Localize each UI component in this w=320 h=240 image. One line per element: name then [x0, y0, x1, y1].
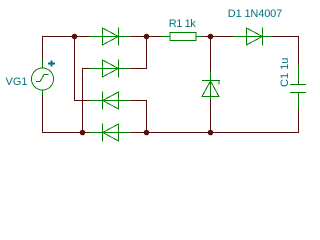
wire D1 to top right corner [272, 36, 299, 65]
zener diode (cathode up) [202, 72, 220, 100]
svg-text:C1 1u: C1 1u [279, 58, 291, 87]
wire zener branch upper [210, 36, 212, 72]
wire VG1 bottom lead to bottom rail [42, 95, 90, 133]
wire zener branch lower [210, 100, 212, 132]
diode D1 1N4007 (pointing right) [234, 28, 272, 46]
voltage source VG1 [32, 60, 54, 95]
junction top at x210 [208, 34, 214, 40]
plus polarity mark of VG1 [48, 61, 55, 67]
wire top rail VG+ to bridge [42, 36, 90, 60]
wire row3 right corner down to bottom rail [130, 100, 147, 132]
junction top at x74 [72, 34, 78, 40]
wire bottom rail right of bridge [130, 132, 299, 134]
svg-text:VG1: VG1 [6, 76, 28, 88]
svg-text:R1 1k: R1 1k [169, 18, 196, 30]
wire R1 to D1 [202, 36, 234, 38]
bridge diode 4 (row 4, pointing left) [90, 124, 130, 142]
wire row2 left corner down to bottom rail [82, 68, 90, 132]
wire top rail bridge output to R1 [130, 36, 162, 38]
bridge diode 3 (row 3, pointing left) [90, 92, 130, 110]
wire row2 right corner up to top junction [130, 36, 147, 69]
svg-text:D1 1N4007: D1 1N4007 [228, 8, 282, 20]
junction bottom at x210 [208, 130, 214, 136]
junction bottom at x146 [144, 130, 150, 136]
junction bottom at x82 [80, 130, 86, 136]
junction top at x146 [144, 34, 150, 40]
wire right side down from capacitor to bottom rail [298, 109, 300, 133]
bridge diode 1 (row 1, pointing right) [90, 28, 130, 46]
wire vertical x74 from top junction to row3 [74, 36, 90, 101]
bridge diode 2 (row 2, pointing right) [90, 60, 130, 78]
capacitor C1 [290, 65, 306, 109]
resistor R1 [162, 33, 202, 41]
